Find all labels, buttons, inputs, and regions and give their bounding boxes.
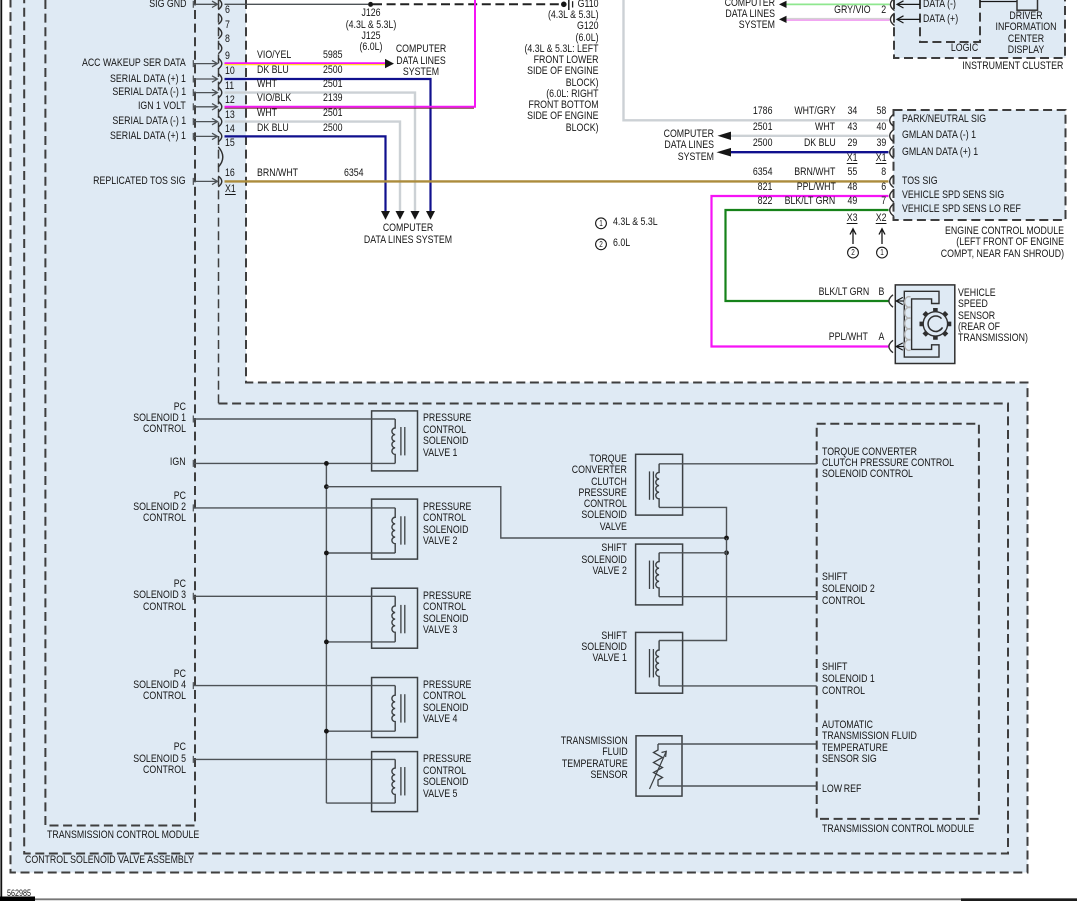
wire label DK BLU 2500	[257, 123, 289, 134]
label VEHICLE SPEED SENSOR location	[958, 288, 1028, 344]
label LOW REF	[822, 784, 861, 795]
shift solenoid 2 coil	[656, 553, 659, 597]
ECM pin label GMLAN DATA (+) 1	[902, 147, 978, 158]
label SHIFT SOLENOID 1 CONTROL	[822, 662, 875, 697]
VSS reluctor inner swirl	[928, 316, 942, 332]
ECM wire row 2500 DK BLU 29 39	[752, 138, 772, 149]
pin lead arrow	[193, 63, 217, 65]
connector X1 pin 16 bracket and lead	[218, 176, 222, 187]
connector X1 spare bracket	[218, 147, 223, 167]
box: LOGIC (dashed)	[920, 0, 980, 42]
cluster internal wire to LOGIC, DATA (-)	[897, 3, 920, 5]
wire label WHT 2501	[257, 79, 277, 90]
wire: VIO/YEL 5985 ACC WAKEUP SER DATA (pin 10)	[225, 62, 386, 64]
wire: shift solenoid 2 control to TCM	[659, 596, 817, 598]
splice: feed bus at SSV2	[724, 550, 729, 555]
connector X1 pin 14 bracket and lead	[218, 116, 222, 127]
shift solenoid valve 2 box	[636, 544, 683, 605]
wire: shift solenoid 1 control to TCM	[659, 685, 817, 687]
wire: BLK/LT GRN 822 VEHICLE SPD SENS LO REF	[726, 210, 889, 301]
label J126/J125 splice	[251, 8, 491, 53]
wire: WHT 2501 GMLAN DATA (-) 1 to computer data lines	[731, 135, 889, 137]
pressure control solenoid valve 3 box	[372, 588, 418, 648]
label SHIFT SOLENOID VALVE 1	[582, 631, 627, 665]
pin lead arrow	[193, 78, 217, 80]
wire: GRY/VIO 2 serial data (+) to instrument cluster	[787, 18, 890, 20]
wire label DK BLU 2500	[257, 65, 289, 76]
VSS pickup C-core	[904, 291, 939, 357]
legend 1 4.3L & 5.3L	[481, 219, 721, 228]
ground G110/G120 symbol	[561, 2, 567, 8]
label COMPUTER DATA LINES SYSTEM (down arrows)	[288, 223, 528, 246]
pin number 13	[225, 110, 235, 121]
ECM connector ids X3 X2	[846, 213, 857, 224]
ECM connector bracket	[890, 146, 894, 158]
label SHIFT SOLENOID 2 CONTROL	[822, 572, 875, 607]
wire: DK BLU 2500 SERIAL DATA (+) 1 (pin 11)	[225, 79, 431, 212]
ECM connector bracket	[890, 175, 894, 187]
ECM pin label VEHICLE SPD SENS SIG	[902, 190, 1004, 201]
wire: solenoid 2 ignition feed	[326, 552, 395, 554]
wire: WHT 2501 SERIAL DATA (-) 1 (pin 12)	[225, 93, 416, 212]
wire: WHT/GRY 1786 PARK/NEUTRAL SIG from top	[624, 0, 889, 120]
wire: VIO/BLK 2139 IGN 1 VOLT (pin 13)	[225, 0, 476, 107]
label REPLICATED TOS SIG	[94, 176, 186, 187]
blue fill: vehicle speed sensor	[895, 285, 955, 364]
wire: SIG GND pin 6 lead	[193, 3, 217, 5]
label SHIFT SOLENOID VALVE 2	[582, 543, 627, 577]
ECM connector bracket	[890, 204, 894, 216]
label TRANSMISSION FLUID TEMPERATURE SENSOR	[561, 736, 628, 781]
label SERIAL DATA (+) 1	[110, 74, 186, 85]
label PC SOLENOID 1 CONTROL	[133, 402, 186, 436]
connector X1 pin 8 bracket	[218, 28, 222, 39]
wire: IGN branch to torque converter solenoid group	[326, 487, 726, 538]
pin number 8	[225, 34, 230, 45]
pin lead arrow	[193, 121, 217, 123]
label COMPUTER DATA LINES SYSTEM (instrument cluster)	[725, 0, 775, 31]
label ACC WAKEUP SER DATA	[82, 58, 186, 69]
pin number 7	[225, 20, 230, 31]
pin number 9	[225, 51, 230, 62]
splice: IGN to PCSV4	[324, 729, 329, 734]
connector X1 pin 7 bracket	[218, 14, 222, 25]
label PRESSURE CONTROL SOLENOID VALVE 2	[423, 502, 471, 548]
label PC SOLENOID 5 CONTROL	[133, 742, 186, 776]
pin lead arrow	[193, 180, 217, 182]
label CONTROL SOLENOID VALVE ASSEMBLY	[25, 855, 194, 866]
box: ENGINE CONTROL MODULE (dashed)	[894, 110, 1066, 220]
label DATA (-)	[923, 0, 956, 10]
wire: WHT 2501 SERIAL DATA (-) 1 (pin 14)	[225, 122, 401, 212]
wire: TFT sensor sig to TCM	[658, 743, 817, 745]
bottom separator	[0, 897, 35, 901]
pressure control solenoid valve 2 box	[372, 499, 418, 559]
label PC SOLENOID 4 CONTROL	[133, 669, 186, 703]
splice: feed bus at TCC	[724, 536, 729, 541]
ECM connector bracket	[890, 130, 894, 142]
arrows down to COMPUTER DATA LINES SYSTEM	[381, 211, 390, 220]
shift solenoid 1 coil	[656, 641, 659, 686]
torque converter clutch pressure control solenoid valve box	[636, 454, 683, 515]
wire: PC solenoid 3 control	[193, 595, 395, 597]
wire: DK BLU 2500 GMLAN DATA (+) 1 to computer data lines	[731, 151, 889, 153]
diagram number 562985	[7, 888, 31, 899]
wire: TFT low ref to TCM	[658, 785, 817, 787]
arrow X2 (4.3L & 5.3L)	[881, 230, 883, 245]
VSS connector bracket pin B	[889, 295, 893, 307]
wire: TCC solenoid feed	[659, 507, 726, 538]
connector X1 pin 9 bracket	[218, 43, 222, 54]
blue fill: engine control module	[894, 110, 1066, 220]
splice: IGN branch to TCC/shift solenoids	[324, 484, 329, 489]
connector X1 pin 13 bracket and lead	[218, 101, 222, 112]
wire: PC solenoid 5 control	[193, 758, 395, 760]
solenoid coil valve 5	[392, 759, 395, 803]
connector X1 pin 10 bracket and lead	[218, 58, 222, 69]
pressure control solenoid valve 1 box	[372, 411, 418, 471]
blue fill: instrument cluster	[894, 0, 1066, 58]
ECM wire row 822 BLK/LT GRN 49 7	[757, 196, 772, 207]
label DATA (+)	[923, 14, 958, 25]
cluster connector bracket pin 2	[890, 13, 894, 25]
splice: IGN to PCSV3	[324, 640, 329, 645]
label SIG GND	[149, 0, 186, 10]
connector X1 pin 11 bracket and lead	[218, 74, 222, 85]
VSS reluctor wheel	[923, 312, 947, 336]
label TRANSMISSION CONTROL MODULE (left)	[47, 830, 199, 841]
transmission fluid temperature sensor box	[636, 736, 682, 796]
box: right TRANSMISSION CONTROL MODULE (dashed)	[817, 424, 979, 819]
splice: IGN to PCSV2	[324, 551, 329, 556]
label DRIVER INFORMATION CENTER DISPLAY	[906, 11, 1077, 56]
wire label BLK/LT GRN B	[818, 287, 869, 298]
label PC SOLENOID 3 CONTROL	[133, 579, 186, 613]
legend 2 6.0L	[481, 240, 721, 249]
label INSTRUMENT CLUSTER	[962, 61, 1063, 72]
label PC SOLENOID 2 CONTROL	[133, 491, 186, 525]
box: DRIVER INFORMATION CENTER DISPLAY	[1017, 0, 1038, 10]
label G110/G120 ground location	[525, 0, 599, 134]
label SERIAL DATA (-) 1	[112, 116, 186, 127]
arrow X3 (6.0L)	[852, 230, 854, 245]
label COMPUTER DATA LINES SYSTEM (acc wakeup)	[301, 44, 541, 78]
label IGN 1 VOLT	[138, 101, 186, 112]
VSS pickup coil	[905, 297, 911, 351]
ECM connector bracket	[890, 190, 894, 202]
pin number 12	[225, 95, 235, 106]
VSS internal lead pin A	[896, 346, 904, 348]
TFT thermistor	[654, 744, 663, 786]
wire: BLK dashed to G110/G120 ground	[373, 3, 561, 5]
pin number 14	[225, 124, 235, 135]
splice: IGN to PCSV1	[324, 461, 329, 466]
page left border	[0, 0, 2, 898]
label SERIAL DATA (+) 1	[110, 131, 186, 142]
legend footnote 2: 6.0L	[596, 239, 607, 250]
TCC solenoid coil	[656, 464, 659, 508]
ECM pin label GMLAN DATA (-) 1	[902, 130, 976, 141]
pin number 16	[225, 168, 235, 179]
wire label VIO/BLK 2139	[257, 93, 291, 104]
wire: LT GRN serial data (-) to instrument cluster	[787, 3, 890, 5]
wire: solenoid 5 ignition feed	[326, 802, 395, 804]
wire: IGN bus vertical	[325, 463, 327, 803]
pin number 10	[225, 66, 235, 77]
wire: SIG GND to ground splice	[225, 3, 369, 5]
ECM pin label TOS SIG	[902, 176, 938, 187]
wire: feed bus down to shift solenoid 1	[659, 538, 726, 641]
wire label VIO/YEL 5985	[257, 50, 291, 61]
wire label WHT 2501	[257, 108, 277, 119]
label TORQUE CONVERTER CLUTCH PRESSURE CONTROL SOLENOID CONTROL	[822, 447, 954, 481]
wire: shift solenoid 2 feed	[659, 552, 726, 554]
box: left TRANSMISSION CONTROL MODULE (inner dashed)	[45, 0, 195, 826]
ECM wire row 2501 WHT 43 40	[752, 122, 772, 133]
label PRESSURE CONTROL SOLENOID VALVE 4	[423, 680, 471, 726]
wire: solenoid 4 ignition feed	[326, 730, 395, 732]
connector X1 pin 15 bracket and lead	[218, 131, 222, 142]
pin number 6	[225, 5, 230, 16]
splice J126 (4.3L & 5.3L) J125 (6.0L)	[368, 2, 373, 7]
label IGN	[170, 457, 186, 468]
ECM pin label PARK/NEUTRAL SIG	[902, 114, 986, 125]
connector X1 pin 12 bracket and lead	[218, 87, 222, 98]
label COMPUTER DATA LINES SYSTEM (GMLAN)	[663, 129, 713, 163]
box: INSTRUMENT CLUSTER (dashed)	[894, 0, 1065, 58]
wire: solenoid 3 ignition feed	[326, 641, 395, 643]
shift solenoid valve 1 box	[636, 632, 683, 693]
footnote 2 circle under X3 arrow	[848, 247, 859, 258]
wire LOGIC to driver information center display	[980, 1, 1017, 3]
ECM wire row 1786 WHT/GRY 34 58	[752, 106, 772, 117]
wire label GRY/VIO 2	[834, 5, 871, 16]
VSS internal lead pin B	[896, 300, 904, 302]
pin lead arrow	[193, 135, 217, 137]
wire: PPL/WHT 821 VEHICLE SPD SENS SIG	[712, 196, 889, 347]
pin lead arrow	[193, 106, 217, 108]
solenoid coil valve 4	[392, 686, 395, 732]
label ENGINE CONTROL MODULE location	[941, 226, 1064, 260]
solenoid coil valve 1	[392, 419, 395, 463]
VSS connector bracket pin A	[889, 340, 893, 352]
pressure control solenoid valve 5 box	[372, 752, 418, 812]
label TORQUE CONVERTER CLUTCH PRESSURE CONTROL SOLENOID VALVE	[572, 454, 627, 533]
footnote digits under ECM arrows	[733, 248, 973, 257]
pressure control solenoid valve 4 box	[372, 678, 418, 738]
cluster connector bracket pin 1	[890, 0, 894, 11]
pin lead arrow	[193, 92, 217, 94]
solenoid coil valve 2	[392, 508, 395, 553]
cluster internal wire to LOGIC, DATA (+)	[897, 18, 920, 20]
connector id X1	[225, 184, 236, 195]
arrow to COMPUTER DATA LINES SYSTEM	[385, 59, 394, 68]
wire: PC solenoid 1 control	[193, 418, 395, 420]
legend footnote 1: 4.3L & 5.3L	[596, 218, 607, 229]
label TRANSMISSION CONTROL MODULE (right)	[822, 824, 974, 835]
wire: BRN/WHT 6354 REPLICATED TOS SIG to ECM pin 55	[225, 180, 889, 182]
label PRESSURE CONTROL SOLENOID VALVE 1	[423, 413, 471, 459]
wire: DK BLU 2500 SERIAL DATA (+) 1 (pin 15)	[225, 136, 386, 211]
wire: PC solenoid 4 control	[193, 685, 395, 687]
label SERIAL DATA (-) 1	[112, 87, 186, 98]
wire: TCC PC solenoid control to TCM	[659, 463, 817, 465]
wire label BRN/WHT 6354	[257, 168, 298, 179]
vehicle speed sensor box	[895, 285, 955, 364]
box: TRANSMISSION CONTROL MODULE outline (second dashed, with X1 connector face)	[218, 0, 220, 404]
ECM wire row 821 PPL/WHT 48 6	[757, 182, 772, 193]
wire: solenoid 1 ignition feed	[193, 462, 395, 464]
wire label PPL/WHT A	[829, 332, 868, 343]
ECM pin label VEHICLE SPD SENS LO REF	[902, 204, 1021, 215]
label PRESSURE CONTROL SOLENOID VALVE 3	[423, 591, 471, 637]
footnote 1 circle under X2 arrow	[877, 247, 888, 258]
ECM wire row 6354 BRN/WHT 55 8	[752, 167, 772, 178]
label PRESSURE CONTROL SOLENOID VALVE 5	[423, 754, 471, 800]
wire: PC solenoid 2 control	[193, 507, 395, 509]
label LOGIC	[951, 43, 978, 54]
pin number 15	[225, 138, 235, 149]
connector X1 pin 6 bracket	[218, 0, 222, 10]
ECM connector bracket	[890, 114, 894, 126]
solenoid coil valve 3	[392, 596, 395, 642]
ECM connector ids X1 X1	[846, 153, 857, 164]
label AUTOMATIC TRANSMISSION FLUID TEMPERATURE SENSOR SIG	[822, 720, 917, 766]
pin number 11	[225, 81, 234, 92]
